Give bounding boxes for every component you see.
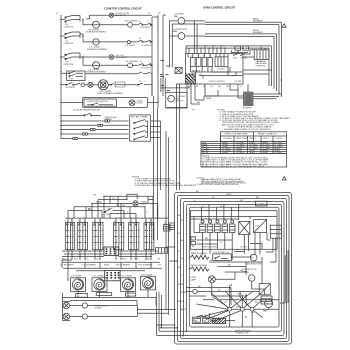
wire plug leads xyxy=(196,313,235,321)
relay RY3 xyxy=(215,220,221,233)
svg-text:ELEMENT: ELEMENT xyxy=(253,32,264,34)
node rail junction dots xyxy=(60,19,158,135)
element R.R. inner coil xyxy=(88,82,93,87)
table footnote box xyxy=(201,154,287,168)
switch lower mesh contact xyxy=(104,208,111,216)
connector P3 marks xyxy=(191,237,196,247)
table data grid xyxy=(201,136,287,154)
box coil jumper 3 xyxy=(125,293,135,296)
svg-text:M: M xyxy=(252,258,254,260)
wire bottom feeds xyxy=(156,325,186,336)
svg-text:H: H xyxy=(139,38,141,40)
node L2 junction xyxy=(278,79,283,96)
svg-text:RD: RD xyxy=(96,201,100,203)
switch door activated switch xyxy=(61,109,117,121)
wire mid bus a xyxy=(161,78,190,92)
wire harness line 3 xyxy=(61,129,129,131)
element broil zigzag xyxy=(190,265,209,271)
svg-text:L2: L2 xyxy=(148,13,151,15)
lamp L.F. light xyxy=(125,41,136,47)
SECTION E: lower oven control circuit xyxy=(156,177,291,344)
node drop junctions xyxy=(200,45,225,49)
svg-text:CONTROL: CONTROL xyxy=(64,43,75,45)
svg-text:L: L xyxy=(147,38,149,40)
element R.R. dual surface element xyxy=(97,80,124,95)
wire below board drops xyxy=(166,84,218,108)
wire label row above boxes xyxy=(65,221,153,223)
connector pair lights a xyxy=(82,303,109,319)
svg-text:BROIL ELEMENT: BROIL ELEMENT xyxy=(191,265,208,267)
clock display box xyxy=(215,57,228,70)
switch door lower xyxy=(213,252,232,261)
svg-text:H: H xyxy=(139,21,141,23)
svg-text:RELAYS: RELAYS xyxy=(192,69,201,72)
lamp oven light 2 xyxy=(63,313,69,319)
box coil jumper 1 xyxy=(76,294,88,298)
svg-text:L1 CAV: L1 CAV xyxy=(257,203,265,206)
node star junction A xyxy=(197,285,232,320)
wire terminal box to right bus xyxy=(151,121,161,190)
svg-text:LINE 2: LINE 2 xyxy=(263,138,270,140)
wire oven light feed xyxy=(61,102,158,104)
svg-text:M: M xyxy=(250,278,252,280)
box cavity lock xyxy=(270,225,281,238)
svg-text:LAMP: LAMP xyxy=(190,279,196,282)
wire row3 indicator line xyxy=(80,56,152,58)
relay warmer dashed box row4 xyxy=(110,82,125,87)
terminal block grid 1 xyxy=(104,247,119,256)
relay RY4 xyxy=(222,220,228,233)
lamp cooktop on indicator xyxy=(109,13,129,17)
switch box RR infinite xyxy=(113,218,123,249)
svg-text:INDICATOR: INDICATOR xyxy=(116,56,128,59)
wire row1 indicator line xyxy=(86,15,152,19)
wire label set board B xyxy=(191,56,211,76)
svg-text:INDICATOR: INDICATOR xyxy=(115,14,127,17)
node junction small xyxy=(193,289,197,293)
svg-text:V-8: V-8 xyxy=(157,259,161,261)
box hot air tunnel terminal xyxy=(130,115,151,141)
svg-text:L3: L3 xyxy=(158,13,161,15)
svg-text:R-BK: R-BK xyxy=(181,292,187,294)
wire label tick set top xyxy=(194,191,259,208)
svg-text:V: V xyxy=(178,251,180,253)
svg-text:LATCH MOTOR: LATCH MOTOR xyxy=(246,263,261,266)
limiter R.F. xyxy=(125,21,138,28)
svg-text:BU: BU xyxy=(228,265,231,267)
connector plug left edge xyxy=(169,223,175,230)
wire star extra spokes xyxy=(213,292,279,327)
element coil LF xyxy=(71,276,86,292)
contacts H-L row1 xyxy=(137,21,152,29)
svg-text:CONTROL: CONTROL xyxy=(256,65,267,67)
element L.R. surface element xyxy=(86,62,107,74)
svg-text:CONTROL: CONTROL xyxy=(140,27,151,29)
svg-text:CONTROL: CONTROL xyxy=(141,68,152,70)
connector pair 4 xyxy=(83,133,88,135)
switch S2 LF control xyxy=(61,32,80,45)
switch box LR infinite xyxy=(77,218,87,249)
terminal block grid 2 xyxy=(105,271,120,281)
wire coil interconnects xyxy=(63,290,157,306)
connector pair 1 xyxy=(105,120,110,122)
svg-text:L: L xyxy=(145,81,147,83)
wire lights runs xyxy=(70,292,177,335)
svg-text:Y: Y xyxy=(181,275,183,277)
switch box LF infinite xyxy=(65,218,74,249)
svg-text:L: L xyxy=(147,21,149,23)
element L.F. surface element xyxy=(87,39,108,51)
svg-text:DOOR ACTIVATED SWITCH: DOOR ACTIVATED SWITCH xyxy=(73,109,100,112)
wire board internal drops xyxy=(203,233,276,261)
node bottom rail dots xyxy=(174,324,188,336)
svg-text:UNLOCKED: UNLOCKED xyxy=(236,138,248,140)
svg-text:AFTER 90 SECS. LINE 1/BROIL CY: AFTER 90 SECS. LINE 1/BROIL CYCLING RELA… xyxy=(202,165,266,168)
wire nested loop 1 xyxy=(175,193,292,345)
svg-text:CONTROL: CONTROL xyxy=(64,64,75,66)
svg-text:W-BR: W-BR xyxy=(226,194,232,196)
wire mid to E stubs xyxy=(166,247,177,261)
relay RY1 xyxy=(200,220,206,233)
element coil RR xyxy=(141,274,156,290)
wire fan box connections xyxy=(243,46,265,57)
box parallel lines lower right xyxy=(261,296,272,304)
svg-text:DOOR: DOOR xyxy=(276,138,283,140)
wire nested loop 6 xyxy=(189,207,279,327)
box coil jumper 2 xyxy=(96,293,112,296)
wire nested loop 2 xyxy=(177,195,289,341)
svg-text:L.R. LIMITER: L.R. LIMITER xyxy=(125,61,138,63)
svg-text:FAN: FAN xyxy=(263,310,268,313)
wire label set board xyxy=(196,238,257,272)
svg-text:Y: Y xyxy=(233,86,235,88)
relay DLB lower xyxy=(254,220,267,233)
svg-text:ELEMENT: ELEMENT xyxy=(253,21,264,23)
svg-text:BK-W: BK-W xyxy=(178,301,183,303)
switch S4 RR control boxed xyxy=(61,71,85,81)
svg-text:FAN: FAN xyxy=(174,15,179,18)
wire nested loop 4 xyxy=(183,201,284,335)
wire label row 2 xyxy=(60,265,162,267)
wire board to lower section xyxy=(177,84,186,190)
svg-text:2) 40W: 2) 40W xyxy=(95,308,102,310)
wire row3 element line xyxy=(83,57,138,65)
svg-text:OVEN CONTROL: OVEN CONTROL xyxy=(202,247,219,249)
svg-text:BU-R: BU-R xyxy=(181,309,187,311)
svg-text:L2: L2 xyxy=(280,79,283,81)
svg-text:L: L xyxy=(148,62,150,64)
contacts H-L row2 xyxy=(137,38,153,47)
svg-text:L.F. 1200W: L.F. 1200W xyxy=(71,276,82,278)
wire row1 element line xyxy=(83,20,137,25)
connector box right bus xyxy=(156,248,168,254)
svg-text:SW: SW xyxy=(106,214,109,216)
wire board internals upper xyxy=(188,50,238,78)
wire fan feed verticals xyxy=(169,21,205,68)
wire board drop wires xyxy=(201,46,225,54)
node junction dots lower xyxy=(231,284,263,318)
warning triangle lower xyxy=(282,177,286,180)
lamp lower indicator xyxy=(133,201,148,206)
svg-text:4. REPLACE ALL WIRES WITH SAME: 4. REPLACE ALL WIRES WITH SAME GAUGE AND… xyxy=(135,184,197,187)
transformer dark xyxy=(185,74,195,84)
wire board inner horizontals right xyxy=(212,67,272,76)
wire L2 drop xyxy=(152,96,154,240)
lamp oven light 1 xyxy=(63,302,71,321)
svg-text:GY: GY xyxy=(224,302,228,304)
svg-text:GY: GY xyxy=(181,258,185,260)
svg-text:5) VERIFY PROPER OPERATION AFT: 5) VERIFY PROPER OPERATION AFTER SERVICI… xyxy=(197,183,240,186)
wire label row under board xyxy=(188,86,242,88)
label box top right xyxy=(256,201,268,206)
svg-text:LIGHT: LIGHT xyxy=(141,204,148,206)
svg-text:W: W xyxy=(181,220,183,222)
svg-text:W-BR: W-BR xyxy=(178,284,184,286)
svg-text:OR: OR xyxy=(240,200,244,202)
lamp oven cavity xyxy=(190,276,215,283)
svg-text:R.F. 2350W: R.F. 2350W xyxy=(121,276,132,278)
svg-text:R: R xyxy=(220,242,222,244)
box lower oven board xyxy=(190,211,277,250)
table header box xyxy=(221,132,287,142)
svg-text:DOOR SWITCH: DOOR SWITCH xyxy=(214,252,230,254)
svg-text:R-3: R-3 xyxy=(85,259,89,261)
svg-text:OR: OR xyxy=(178,267,182,269)
svg-text:GY: GY xyxy=(210,86,214,88)
svg-text:BU: BU xyxy=(181,240,184,242)
switch oven light switch box xyxy=(84,99,117,106)
svg-text:CLOCK: CLOCK xyxy=(218,68,226,70)
resistor hatched block xyxy=(213,318,226,323)
svg-text:OR: OR xyxy=(251,313,255,315)
wire right inner verticals xyxy=(280,250,288,303)
svg-text:GY-6: GY-6 xyxy=(134,259,140,261)
wire relay drop wires xyxy=(202,204,239,220)
svg-text:V: V xyxy=(240,86,242,88)
wire board internal horizontals xyxy=(190,217,277,284)
svg-text:RD: RD xyxy=(99,202,103,204)
element coil RF xyxy=(121,276,136,292)
svg-text:W: W xyxy=(220,206,222,208)
relay K1 xyxy=(191,58,196,67)
relay box diagonal lower xyxy=(259,284,270,295)
svg-text:CONTROL: CONTROL xyxy=(64,26,75,28)
svg-text:H: H xyxy=(139,81,141,83)
svg-text:H: H xyxy=(140,62,142,64)
svg-text:BU-5: BU-5 xyxy=(122,259,128,261)
svg-text:L.R. ELEMENT: L.R. ELEMENT xyxy=(82,265,97,267)
wire label set lower xyxy=(198,286,258,315)
svg-text:W-BK: W-BK xyxy=(104,265,110,267)
box cooling fan enclosure xyxy=(166,92,187,107)
element R.F. surface element xyxy=(86,21,107,33)
switch box RF infinite xyxy=(93,218,103,249)
wire label below board 2 xyxy=(192,98,212,111)
switch S1 RF control xyxy=(61,16,80,29)
svg-text:OVEN CONTROL: OVEN CONTROL xyxy=(209,81,226,83)
wire L3 rail xyxy=(157,15,159,108)
relay RY5 xyxy=(229,220,235,233)
igniter assembly xyxy=(243,92,253,109)
svg-text:M: M xyxy=(168,99,170,101)
wire harness line 2 xyxy=(61,124,129,126)
wire row4 element line xyxy=(61,84,152,86)
switch box aux infinite xyxy=(144,218,154,249)
svg-text:FAN: FAN xyxy=(173,30,178,33)
wire nested loop 3 xyxy=(180,198,286,338)
svg-text:Y: Y xyxy=(196,250,198,252)
element coil LR xyxy=(92,276,107,292)
switch row4 contacts xyxy=(65,82,80,89)
svg-text:OR: OR xyxy=(116,205,120,207)
svg-text:OVEN CONTROL CIRCUIT: OVEN CONTROL CIRCUIT xyxy=(203,6,236,10)
svg-text:Y-4: Y-4 xyxy=(96,259,100,261)
svg-text:BK: BK xyxy=(178,215,181,217)
svg-text:CONTROL: CONTROL xyxy=(65,87,76,89)
svg-text:LIGHT: LIGHT xyxy=(137,103,144,105)
svg-text:R.R.: R.R. xyxy=(69,79,74,81)
SECTION C: notes and lock switch table xyxy=(201,110,290,168)
svg-text:GY: GY xyxy=(158,265,162,267)
wire right cluster verticals xyxy=(249,233,277,262)
svg-text:W: W xyxy=(218,290,220,292)
svg-text:W-BK: W-BK xyxy=(206,98,212,100)
connector plug P1 P2 xyxy=(192,317,211,323)
motor cooling fan xyxy=(168,95,186,102)
limiter R.R. small xyxy=(81,83,84,86)
svg-text:CONNECTOR: CONNECTOR xyxy=(235,333,249,335)
svg-text:BK: BK xyxy=(94,195,97,197)
wire L2 rail xyxy=(151,17,153,96)
wire L3 drop xyxy=(156,108,158,240)
svg-text:LINE 1: LINE 1 xyxy=(250,138,257,140)
svg-text:W: W xyxy=(210,260,212,262)
connector pair 5 xyxy=(73,137,78,139)
wire bake element loop xyxy=(205,17,282,96)
node star junction B xyxy=(212,291,259,322)
relay K3 xyxy=(202,58,207,67)
wire lower distribution xyxy=(186,257,279,305)
svg-text:HOT AIR TUNNEL: HOT AIR TUNNEL xyxy=(131,116,149,119)
SECTION D: lower cooktop wiring xyxy=(60,176,197,335)
svg-text:FILTER: FILTER xyxy=(235,81,243,83)
svg-text:R.F. LIMITER: R.F. LIMITER xyxy=(125,21,138,23)
svg-text:COOKTOP CONTROL CIRCUIT: COOKTOP CONTROL CIRCUIT xyxy=(104,7,142,11)
svg-text:OR: OR xyxy=(226,86,230,88)
svg-text:FAN: FAN xyxy=(243,270,248,273)
node star junction C xyxy=(240,292,264,328)
relay K4 xyxy=(208,58,213,67)
relay RY2 xyxy=(207,220,213,233)
wire main bus xyxy=(65,217,168,219)
svg-text:RELAY CONTACTS: RELAY CONTACTS xyxy=(258,133,277,136)
svg-text:L.R. 1200W: L.R. 1200W xyxy=(93,276,104,278)
wire upper mesh xyxy=(68,194,158,218)
SECTION A: cooktop control circuit xyxy=(56,7,166,191)
wire label column left loops xyxy=(178,215,187,311)
motor lower right xyxy=(263,300,273,313)
warning triangle top xyxy=(282,24,286,27)
svg-text:CONTROL: CONTROL xyxy=(142,45,153,47)
fuse TOD component xyxy=(175,68,182,74)
wire igniter connections xyxy=(205,84,282,99)
svg-text:BU: BU xyxy=(88,209,91,211)
box oven light circuit xyxy=(83,98,148,108)
svg-text:SURFACE ELEMENT: SURFACE ELEMENT xyxy=(86,71,107,74)
connector pair 3 xyxy=(90,128,95,130)
box oven control board xyxy=(186,54,244,85)
svg-text:IGNITER: IGNITER xyxy=(243,107,252,109)
wire cross bus rows xyxy=(62,251,162,271)
svg-text:BU: BU xyxy=(218,86,221,88)
svg-text:BU: BU xyxy=(256,197,259,199)
wire board outer wrap xyxy=(186,46,272,86)
lamp oven light xyxy=(129,100,143,106)
bridge component xyxy=(239,221,250,234)
wire broil element loop xyxy=(205,30,277,91)
wire harness line 4 xyxy=(61,133,129,135)
node mid stub dots xyxy=(174,246,179,262)
svg-text:LOCKED: LOCKED xyxy=(223,138,232,140)
svg-text:Y: Y xyxy=(146,212,148,214)
motor convection lower xyxy=(243,269,257,281)
svg-text:CLOCK: CLOCK xyxy=(240,247,248,249)
svg-text:DLB: DLB xyxy=(233,58,238,60)
svg-text:DUAL SURFACE ELEMENT: DUAL SURFACE ELEMENT xyxy=(97,92,124,95)
relay K2 xyxy=(196,58,201,67)
svg-text:OVEN LOCK SWITCHES: OVEN LOCK SWITCHES xyxy=(224,134,248,136)
svg-text:W: W xyxy=(196,86,198,88)
motor door latch xyxy=(246,254,261,265)
svg-text:OVEN LIGHT SWITCH: OVEN LIGHT SWITCH xyxy=(87,101,109,103)
relay contact set upper right xyxy=(232,46,249,60)
wire L2 L3 top ticks xyxy=(152,15,166,96)
wire long mid verticals xyxy=(166,131,169,315)
switch box warm infinite xyxy=(129,218,139,249)
motor convection fan xyxy=(169,29,205,39)
limiter L.R. xyxy=(125,61,138,68)
fan speed control box xyxy=(254,50,269,68)
wire L1 rail xyxy=(60,15,62,139)
svg-text:L1: L1 xyxy=(56,13,59,15)
wire row2 element line xyxy=(80,34,137,42)
contacts H-L row3 xyxy=(138,62,152,70)
connector J2 small box right xyxy=(164,223,171,231)
SECTION B: oven control circuit xyxy=(166,6,286,191)
wire harness line 5 xyxy=(61,137,129,139)
switch S3 LR control xyxy=(61,53,80,66)
svg-text:DLB: DLB xyxy=(255,226,260,228)
contacts H-L row4 xyxy=(138,74,152,96)
wire row4 top line xyxy=(85,72,152,74)
svg-text:OR: OR xyxy=(122,205,126,207)
wire label row 1 xyxy=(62,259,161,261)
connector pair 2 xyxy=(98,124,103,126)
svg-text:L.F. LIGHT: L.F. LIGHT xyxy=(125,45,136,47)
SECTION M: middle interconnect column xyxy=(153,61,190,316)
lamp LR on indicator xyxy=(109,55,127,59)
motor cooling fan upper xyxy=(169,14,205,25)
wire harness line 1 xyxy=(61,120,129,122)
svg-text:SURFACE ELEMENT: SURFACE ELEMENT xyxy=(87,48,108,51)
svg-text:R: R xyxy=(178,233,180,235)
svg-text:W-2: W-2 xyxy=(74,259,79,261)
svg-text:SURFACE ELEMENT: SURFACE ELEMENT xyxy=(86,31,107,34)
wire drops to coils xyxy=(62,250,151,282)
wire label ticks xyxy=(160,61,170,91)
svg-text:GY: GY xyxy=(192,110,196,112)
svg-text:SHOWN DURING EACH CYCLE OF OPE: SHOWN DURING EACH CYCLE OF OPERATION xyxy=(224,128,271,131)
